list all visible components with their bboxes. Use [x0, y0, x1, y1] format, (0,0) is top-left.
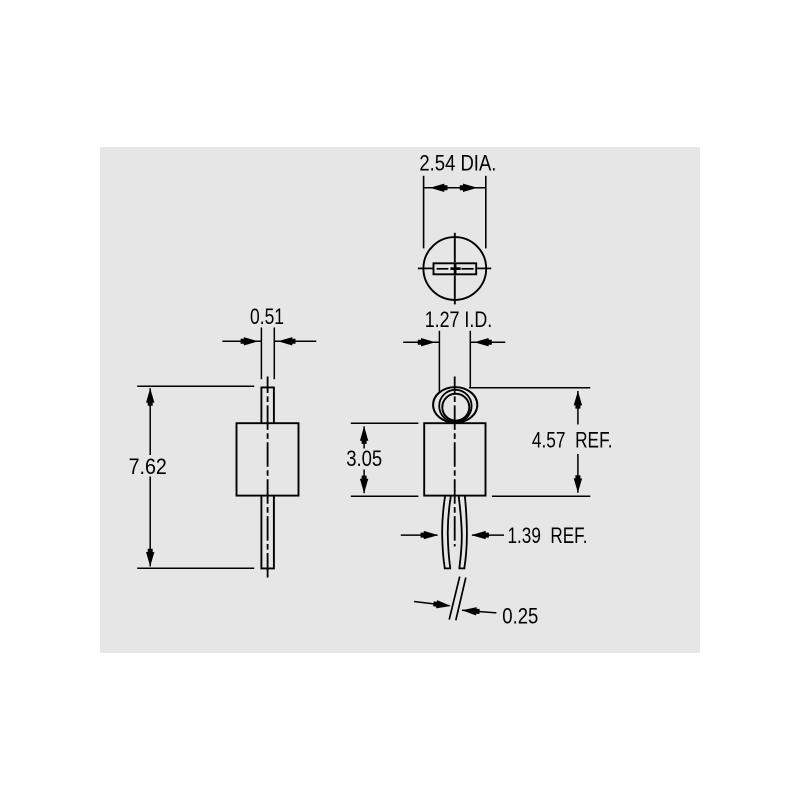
front view loop outer ellipse: [433, 387, 477, 423]
top view vertical centerline upper: [454, 233, 456, 262]
top view horizontal centerline dash right: [461, 268, 473, 270]
dimension 7.62 arrow up: [146, 388, 154, 406]
front view right leg: [459, 497, 467, 569]
wire section diagonal left line: [449, 577, 460, 620]
dimension 7.62 arrow down: [146, 549, 154, 567]
dimension 1.39 arrow left: [421, 531, 439, 539]
dimension 3.05 arrow up: [360, 426, 368, 444]
dimension 2.54 arrow right: [460, 184, 478, 192]
svg-text:1.39 REF.: 1.39 REF.: [508, 523, 588, 548]
top view horizontal centerline right: [477, 267, 491, 269]
front view left leg: [442, 497, 451, 569]
dimension 4.57 arrow down: [574, 475, 582, 493]
top view horizontal centerline left: [418, 267, 433, 269]
top view slot rectangle: [434, 263, 477, 274]
front view loop middle circle: [439, 390, 471, 422]
dimension 1.27 arrow right: [474, 338, 492, 346]
dimension 1.39 leader left: [401, 534, 438, 536]
dimension 3.05 dimension line lower: [363, 470, 365, 494]
dimension 0.25 leader left: [414, 602, 450, 606]
dimension 7.62 dimension line upper: [149, 388, 151, 455]
front view loop inner circle: [442, 394, 469, 421]
svg-text:4.57 REF.: 4.57 REF.: [532, 427, 613, 452]
top view center cross: [450, 264, 460, 274]
svg-text:2.54 DIA.: 2.54 DIA.: [419, 151, 496, 176]
dimension 1.39 leader right: [472, 534, 504, 536]
dimension 2.54 extension line right: [485, 176, 487, 249]
dimension 1.27 leader left: [403, 341, 439, 343]
top view horizontal centerline dash left: [437, 268, 449, 270]
side view pin upper segment: [261, 387, 274, 423]
svg-text:3.05: 3.05: [346, 446, 382, 471]
dimension 0.51 arrow left: [241, 337, 259, 345]
dimension 3.05 dimension line upper: [363, 426, 365, 448]
top view vertical centerline lower: [454, 275, 456, 304]
dimension 3.05 arrow down: [360, 476, 368, 494]
dimension 1.27 arrow left: [418, 338, 436, 346]
dimension 1.39 arrow right: [471, 531, 489, 539]
dimension 0.51 leader left: [222, 340, 261, 342]
svg-text:1.27 I.D.: 1.27 I.D.: [425, 307, 493, 332]
gray drawing background: [100, 147, 700, 653]
dimension 2.54 arrow left: [430, 184, 448, 192]
dimension 1.27 extension line left: [438, 331, 440, 393]
dimension 0.51 leader right: [274, 340, 316, 342]
side view pin lower segment: [261, 496, 274, 569]
dimension 0.51 extension line right: [273, 328, 275, 380]
svg-text:0.51: 0.51: [250, 304, 284, 329]
svg-text:7.62: 7.62: [129, 454, 167, 479]
dimension 3.05 extension line top: [351, 422, 419, 424]
top view outer circle: [423, 237, 486, 300]
dimension 7.62 extension line bottom: [137, 567, 254, 569]
dimension 7.62 extension line top: [137, 385, 254, 387]
dimension 0.25 arrow right: [462, 607, 480, 615]
dimension 2.54 extension line left: [423, 176, 425, 249]
dimension 0.25 arrow left: [433, 600, 451, 608]
dimension 1.27 leader right: [470, 341, 505, 343]
side view body rectangle: [237, 423, 299, 495]
dimension 4.57 dimension line lower: [577, 454, 579, 493]
dimension 4.57 arrow up: [574, 391, 582, 409]
dimension 3.05 extension line bottom: [351, 495, 419, 497]
dimension 7.62 dimension line lower: [149, 477, 151, 567]
dimension 2.54 dimension line: [424, 187, 486, 189]
wire section diagonal right line: [456, 578, 466, 621]
dimension 0.25 leader right: [462, 610, 496, 613]
dimension 4.57 extension line top: [469, 387, 590, 389]
svg-text:0.25: 0.25: [502, 603, 538, 628]
front view centerline: [454, 377, 456, 547]
front view body rectangle: [424, 423, 485, 495]
dimension 0.51 extension line left: [260, 328, 262, 380]
dimension 4.57 extension line bottom: [492, 495, 590, 497]
side view centerline: [267, 377, 269, 580]
dimension 1.27 extension line right: [469, 331, 471, 388]
dimension 4.57 dimension line upper: [577, 391, 579, 425]
dimension 0.51 arrow right: [278, 337, 296, 345]
